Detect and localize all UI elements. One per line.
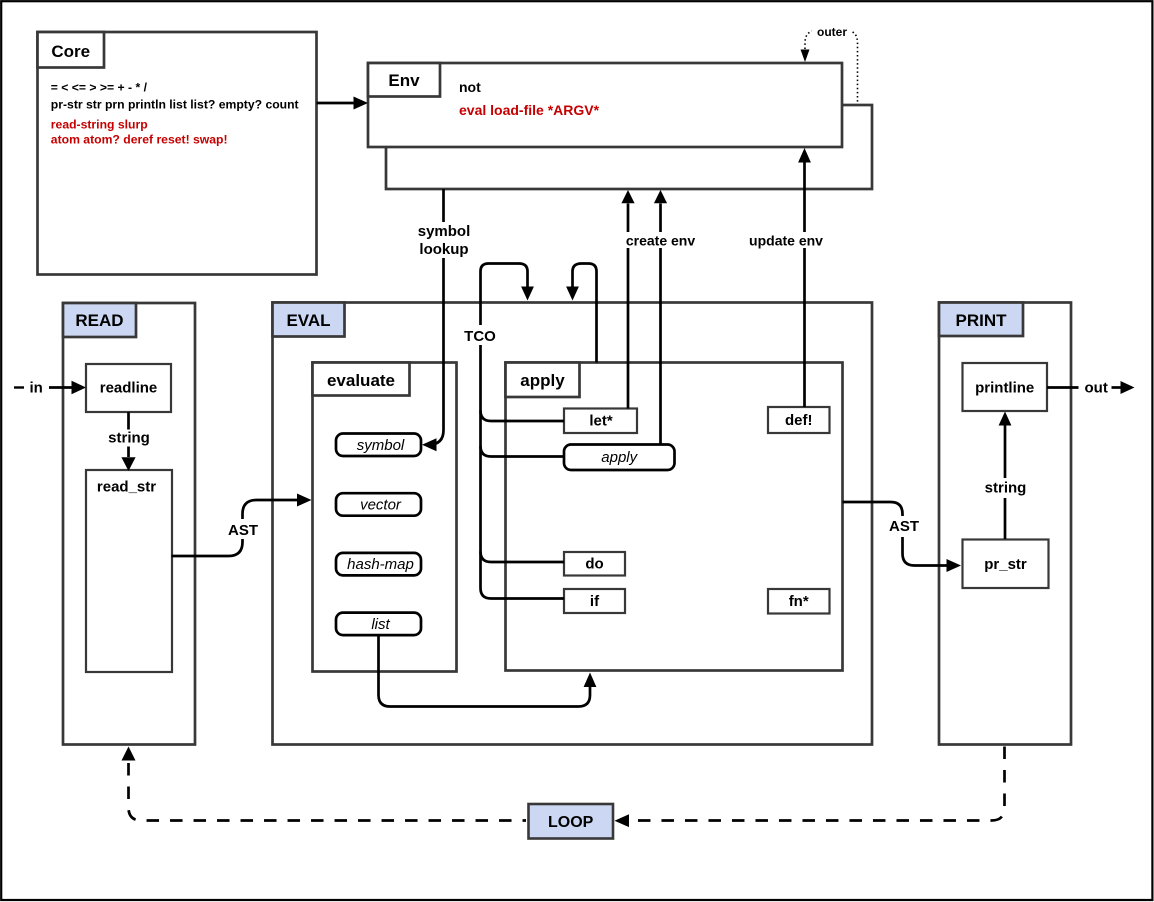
svg-text:out: out xyxy=(1085,380,1108,397)
svg-text:TCO: TCO xyxy=(464,328,496,345)
svg-text:symbol: symbol xyxy=(418,223,471,240)
svg-text:outer: outer xyxy=(817,25,847,39)
svg-text:create env: create env xyxy=(626,233,695,249)
svg-text:lookup: lookup xyxy=(419,241,468,258)
svg-text:apply: apply xyxy=(601,449,638,466)
svg-text:EVAL: EVAL xyxy=(286,311,330,330)
svg-text:readline: readline xyxy=(100,380,158,397)
svg-text:Core: Core xyxy=(51,42,90,61)
svg-text:READ: READ xyxy=(75,311,123,330)
svg-text:hash-map: hash-map xyxy=(347,556,414,573)
svg-text:do: do xyxy=(585,556,603,573)
svg-text:AST: AST xyxy=(228,522,258,539)
svg-text:Env: Env xyxy=(388,71,420,90)
svg-text:update env: update env xyxy=(749,233,823,249)
svg-text:fn*: fn* xyxy=(789,593,809,610)
svg-text:in: in xyxy=(30,380,43,397)
svg-text:PRINT: PRINT xyxy=(956,311,1008,330)
svg-text:printline: printline xyxy=(975,380,1034,397)
svg-text:pr-str str prn println list li: pr-str str prn println list list? empty?… xyxy=(51,98,299,112)
svg-text:let*: let* xyxy=(589,413,613,430)
svg-text:read-string slurp: read-string slurp xyxy=(51,118,148,132)
svg-text:read_str: read_str xyxy=(97,479,156,496)
svg-text:string: string xyxy=(985,480,1027,497)
svg-text:AST: AST xyxy=(889,518,919,535)
svg-text:evaluate: evaluate xyxy=(327,371,395,390)
svg-text:if: if xyxy=(590,593,600,610)
svg-text:apply: apply xyxy=(520,371,565,390)
svg-text:string: string xyxy=(108,430,150,447)
svg-text:def!: def! xyxy=(785,412,813,429)
svg-text:pr_str: pr_str xyxy=(984,556,1027,573)
svg-text:LOOP: LOOP xyxy=(548,814,594,831)
svg-text:= < <= > >= + - * /: = < <= > >= + - * / xyxy=(51,81,148,95)
svg-text:vector: vector xyxy=(360,497,402,514)
svg-text:atom atom? deref reset! swap!: atom atom? deref reset! swap! xyxy=(51,133,228,147)
svg-text:list: list xyxy=(371,616,390,633)
svg-text:not: not xyxy=(459,79,481,95)
svg-text:symbol: symbol xyxy=(357,437,405,454)
svg-text:eval load-file *ARGV*: eval load-file *ARGV* xyxy=(459,102,600,118)
